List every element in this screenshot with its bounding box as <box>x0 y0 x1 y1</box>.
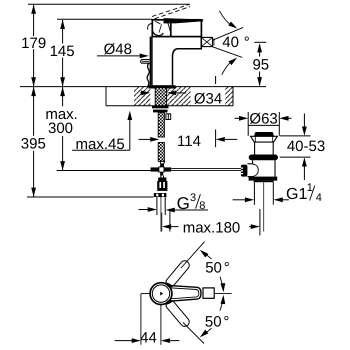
spray angle arc upper with arrow <box>219 11 238 31</box>
svg-text:G1: G1 <box>286 186 307 203</box>
drain bottom locknut band <box>249 177 278 183</box>
mounting bolt side tab <box>166 114 171 120</box>
svg-text:8: 8 <box>199 200 205 212</box>
svg-text:40: 40 <box>222 34 239 51</box>
svg-text:max.180: max.180 <box>183 220 241 237</box>
svg-text:°: ° <box>224 260 230 277</box>
extension line bottom of hose connections <box>27 196 154 198</box>
lever centerline extension <box>214 293 231 295</box>
svg-text:3: 3 <box>190 192 196 204</box>
svg-text:145: 145 <box>50 43 75 60</box>
dimension 95 <box>252 43 269 86</box>
lower 50 ray <box>183 323 204 344</box>
dimension 114 <box>177 76 237 150</box>
aerator at spout end <box>201 37 214 46</box>
drain body <box>247 160 275 176</box>
svg-text:300: 300 <box>48 120 73 137</box>
drain O-ring seal <box>249 155 278 161</box>
label 50 upper <box>205 260 230 277</box>
pop-up waste drain: Ø63 dimension <box>235 111 292 136</box>
dimension max300 line <box>60 87 65 170</box>
label 145 <box>50 43 75 60</box>
dimension 179 line <box>31 5 36 87</box>
spray angle fan lines <box>213 27 244 57</box>
deck slab with hatching <box>106 87 233 106</box>
rotated lever down 50 <box>164 299 191 329</box>
lever shaft (center position) <box>168 285 202 301</box>
lever handle (down position) <box>164 18 204 23</box>
hub arcs at lever joints <box>167 283 172 304</box>
hose funnel below shank <box>160 161 165 164</box>
lever end block <box>203 288 214 298</box>
spray angle arc lower with arrow <box>222 56 239 75</box>
drain plug cap <box>254 132 274 136</box>
dimension 145 line <box>60 20 65 87</box>
svg-text:4: 4 <box>316 192 322 204</box>
svg-text:179: 179 <box>21 35 46 52</box>
hose below tee <box>161 176 164 178</box>
label Ø34 with arrows <box>140 90 222 107</box>
svg-text:1: 1 <box>307 182 313 194</box>
svg-text:Ø48: Ø48 <box>104 41 132 58</box>
drain flange <box>251 136 278 142</box>
upper 50 arc with arrows <box>198 248 226 293</box>
svg-text:Ø34: Ø34 <box>194 90 222 107</box>
label 395 <box>21 136 46 153</box>
svg-text:395: 395 <box>21 136 46 153</box>
svg-text:40-53: 40-53 <box>287 138 325 155</box>
G3/8 threaded tails <box>157 197 165 232</box>
svg-text:44: 44 <box>140 329 157 346</box>
extension line deck top <box>20 86 266 88</box>
label max.45 with underline and up-arrow leader <box>72 111 159 153</box>
dimension 44 <box>115 329 180 346</box>
dimension 44 reference lines <box>141 294 161 345</box>
lever raised position (dashed) <box>152 5 190 19</box>
G1 1/4 arrows <box>233 197 289 202</box>
upper 50 ray <box>181 242 205 268</box>
label G3/8 with leader <box>139 192 209 213</box>
pop-up pull rod twisted strand <box>147 63 149 86</box>
drain G1 1/4 threaded tail <box>254 182 273 231</box>
body circle outer <box>150 283 172 305</box>
rotated lever up 50 <box>164 259 191 289</box>
hose upper stub <box>161 164 164 167</box>
label 50 lower <box>205 314 230 331</box>
drain side knob (knurled) <box>241 165 248 177</box>
label 179 <box>21 35 46 52</box>
svg-text:°: ° <box>244 34 250 51</box>
G3/8 coupling nut <box>154 178 168 198</box>
pop-up pull rod handle behind body <box>141 60 151 64</box>
extension line top of raised lever <box>28 3 190 5</box>
body circle inner <box>152 285 169 302</box>
pop-up linkage tee joint <box>151 164 172 176</box>
extension line top of faucet body <box>57 18 152 20</box>
svg-text:114: 114 <box>177 133 201 150</box>
drain neck <box>255 142 274 154</box>
label G1 1/4 <box>286 182 322 204</box>
svg-text:G: G <box>177 194 190 213</box>
svg-text:50: 50 <box>205 314 222 331</box>
dimension max.180 <box>162 209 260 237</box>
label 40 degrees <box>222 34 266 51</box>
faucet base plate on deck <box>149 85 176 88</box>
label Ø48 with leader arrow <box>97 41 149 58</box>
label max.300 <box>45 106 78 137</box>
svg-text:95: 95 <box>252 56 269 73</box>
dimension 395 line <box>31 87 36 197</box>
center mark <box>160 292 163 296</box>
svg-text:50: 50 <box>205 260 222 277</box>
extension line max300 bottom / pop-up linkage level <box>57 170 151 172</box>
threaded shank through deck (checkered) <box>155 88 166 162</box>
mounting nut below deck <box>152 106 169 113</box>
pop-up linkage horizontal rod <box>171 168 241 170</box>
lever raised position (thin outline) <box>148 21 171 36</box>
G1 1/4 fraction slash <box>310 186 315 201</box>
lower 50 arc with arrows <box>198 295 226 340</box>
dimension 40-53 <box>280 114 325 181</box>
faucet body outline <box>150 20 201 85</box>
svg-text:°: ° <box>223 314 229 331</box>
